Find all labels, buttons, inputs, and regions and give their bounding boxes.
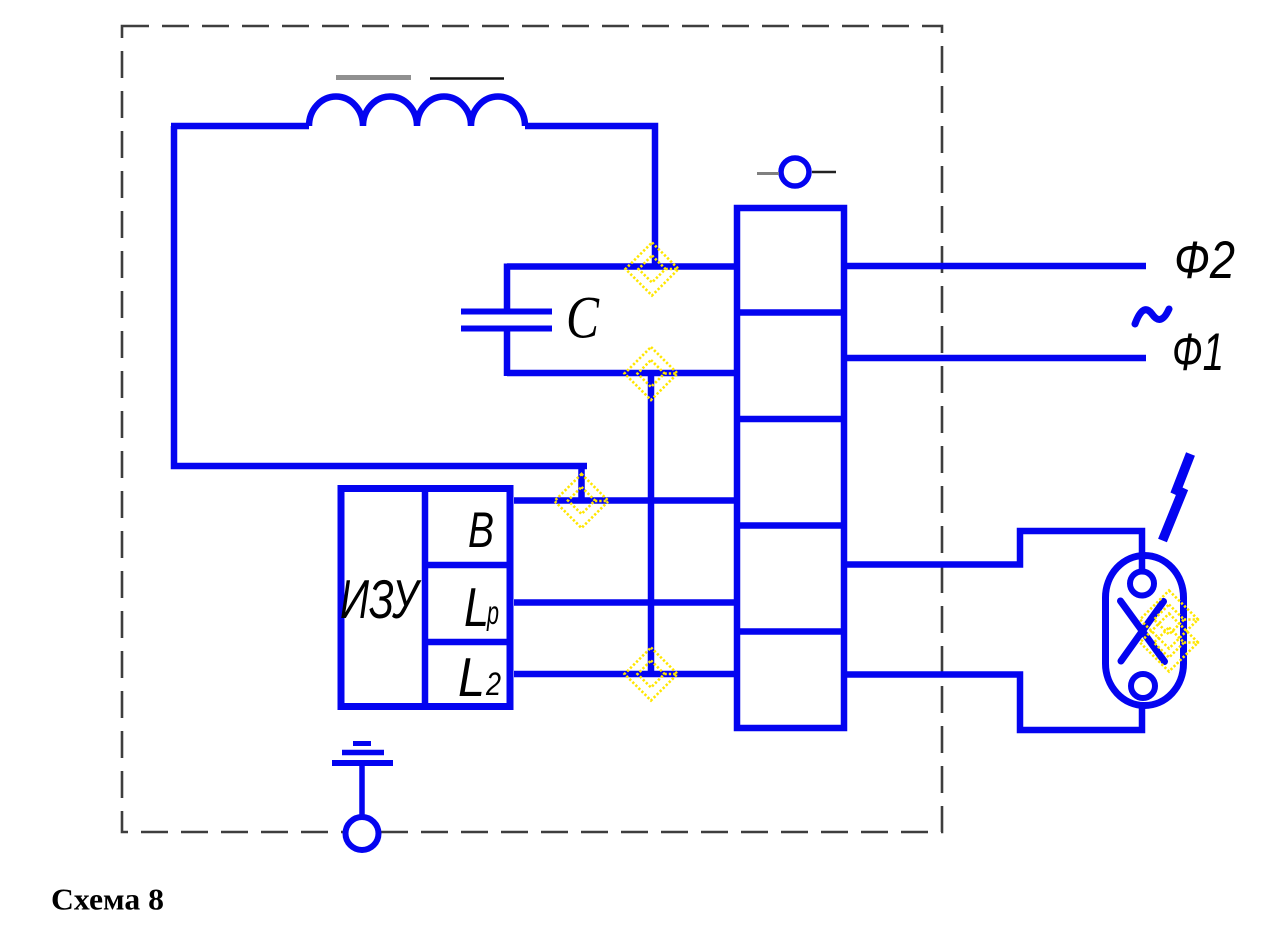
svg-text:C: C (566, 285, 600, 351)
svg-text:Ф2: Ф2 (1174, 231, 1235, 290)
wire: lamp top feed (844, 531, 1142, 570)
terminal divider 1 (737, 309, 844, 316)
lightning bolt arrow (1163, 454, 1191, 541)
wire: capacitor top wire to terminal block (507, 263, 737, 270)
svg-text:B: B (468, 502, 494, 558)
svg-text:p: p (486, 594, 499, 631)
wire: inductor to top-right corner and down to node 1 (525, 126, 655, 267)
svg-text:L: L (464, 576, 489, 638)
ground symbol bars (332, 760, 393, 766)
lamp X cross stroke 2 (1121, 602, 1164, 662)
wire: B wire from IZU to terminal block (514, 497, 737, 504)
indicator circle above terminal block (781, 158, 809, 186)
terminal block (737, 208, 844, 728)
node 2 junction marker (625, 347, 678, 400)
wire: middle vertical from node 2 to node 4 (648, 373, 655, 674)
terminal divider 4 (737, 628, 844, 635)
svg-text:L: L (458, 646, 485, 708)
svg-text:Ф1: Ф1 (1172, 323, 1224, 382)
wire: lamp bottom feed (844, 675, 1142, 731)
lamp top electrode circle (1130, 572, 1154, 596)
gray tick left of circle (757, 172, 779, 175)
wire: left loop (top horizontal, left vertical, bottom horizontal, drop to B) (171, 126, 587, 501)
IZU row divider 1 (425, 562, 513, 569)
lamp X cross stroke 1 (1121, 601, 1165, 662)
wire: capacitor bottom wire to terminal block (507, 370, 737, 377)
gray bar above inductor (336, 75, 411, 80)
wire: capacitor left vertical (top) (504, 264, 511, 312)
black line above inductor (430, 77, 504, 80)
IZU inner vertical divider (422, 485, 429, 710)
ground terminal circle (346, 817, 379, 850)
svg-text:Схема 8: Схема 8 (51, 882, 164, 917)
capacitor C top plate (461, 309, 552, 315)
lamp junction markers (1140, 591, 1200, 672)
wire: Lp wire from IZU to terminal block (514, 599, 737, 606)
ground stem (359, 766, 365, 818)
terminal divider 3 (737, 522, 844, 529)
wire: capacitor left vertical (bottom) (504, 329, 511, 376)
dark tick right of circle (812, 171, 836, 174)
svg-text:ИЗУ: ИЗУ (340, 568, 422, 630)
lamp bottom electrode circle (1131, 674, 1155, 698)
node 1 junction marker (626, 243, 679, 296)
terminal divider 2 (737, 416, 844, 423)
lamp EL bulb outline (1106, 556, 1184, 706)
node 4 junction marker (625, 648, 678, 701)
capacitor C bottom plate (461, 326, 552, 332)
AC tilde symbol (1135, 309, 1169, 324)
node 3 junction marker (555, 474, 609, 528)
inductor L (ballast) (309, 97, 525, 127)
ignition unit IZU box (341, 489, 510, 707)
svg-text:2: 2 (485, 666, 501, 702)
wire: L2 wire from IZU to terminal block (514, 671, 737, 678)
IZU row divider 2 (425, 639, 513, 646)
dashed enclosure border (122, 26, 942, 832)
wire: phase F2 output (844, 263, 1146, 270)
wire: phase F1 output (844, 355, 1146, 362)
